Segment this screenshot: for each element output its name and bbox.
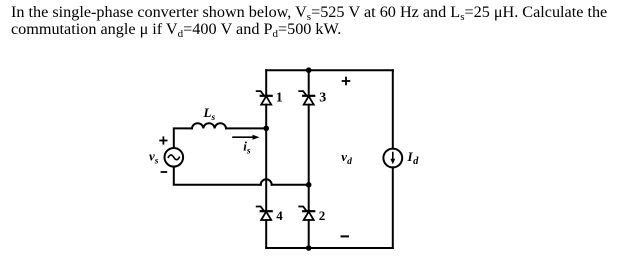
svg-text:Ls: Ls [203, 105, 216, 123]
wire left leg upper (T1 cathode to top rail) [265, 70, 267, 96]
node bottom rail junction dot [306, 245, 312, 251]
node B junction dot [306, 182, 312, 188]
wire inductor to node A [226, 127, 266, 129]
node A junction dot [263, 126, 269, 132]
thyristor T4 [257, 207, 272, 221]
svg-text:vd: vd [341, 149, 352, 167]
label is with arrow [233, 135, 260, 157]
polarity - of load [342, 235, 349, 237]
inductor Ls [192, 123, 226, 128]
thyristor T1 [257, 91, 272, 105]
svg-text:Id: Id [407, 149, 420, 167]
wire left leg bottom (T4 anode to bottom rail) [265, 220, 267, 248]
thyristor T2 [299, 207, 314, 221]
wire hop to node B [272, 184, 309, 186]
svg-text:vs: vs [149, 149, 159, 167]
wire load leg upper (top rail to current source) [392, 70, 394, 148]
wire left leg middle (T1 anode through node A to T4 cathode) [265, 105, 267, 212]
wire source top to inductor [174, 128, 192, 148]
svg-text:1: 1 [276, 91, 283, 106]
polarity + of source [160, 137, 166, 143]
ac source vs [165, 148, 184, 167]
wire right leg upper (T3 cathode to top rail) [308, 70, 310, 96]
node top rail junction dot [306, 67, 312, 73]
wire top rail [266, 69, 393, 71]
svg-text:3: 3 [319, 91, 326, 106]
wire right leg bottom (T2 anode to bottom rail) [308, 220, 310, 248]
wire right leg middle (T3 anode to node B) [308, 105, 310, 212]
wire load leg lower (current source to bottom rail) [392, 167, 394, 248]
polarity - of source [162, 171, 167, 173]
svg-text:4: 4 [276, 208, 283, 223]
thyristor T3 [299, 91, 314, 105]
polarity + of load [343, 78, 350, 85]
current source Id [383, 149, 402, 168]
svg-text:2: 2 [319, 208, 326, 223]
svg-text:is: is [243, 139, 251, 157]
wire source bottom to hop [174, 167, 261, 185]
wire hop over left leg [261, 179, 272, 184]
wire bottom rail [266, 247, 393, 249]
